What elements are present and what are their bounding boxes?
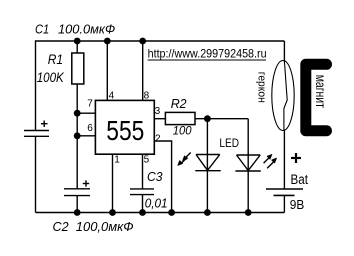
svg-text:6: 6 [87, 123, 93, 134]
node top rail R1 [74, 38, 81, 45]
capacitor C1 [24, 121, 49, 137]
node R2 output junction [204, 115, 211, 122]
LED D1 arrows [181, 153, 191, 164]
wire battery minus to ground rail [283, 195, 285, 212]
node ground C2 [74, 209, 81, 216]
wire LED D2 column [247, 119, 249, 213]
reed switch SF1 glass envelope [272, 61, 294, 131]
svg-text:C3: C3 [147, 169, 163, 184]
svg-text:9В: 9В [290, 197, 305, 212]
node ground C3 [139, 209, 146, 216]
battery GB1 [266, 153, 303, 195]
wire C2 to ground rail [76, 196, 78, 213]
capacitor C3 [130, 189, 154, 195]
wire pin 6 [77, 135, 95, 137]
magnet body [306, 64, 327, 130]
svg-text:C1: C1 [35, 22, 49, 37]
svg-text:Bat: Bat [291, 172, 309, 187]
svg-text:1: 1 [114, 154, 120, 165]
wire R2 output [195, 118, 248, 120]
svg-text:3: 3 [155, 106, 161, 117]
wire bottom ground rail [36, 212, 285, 214]
wire pin 5 to C3 [142, 154, 144, 189]
LED D2 arrow heads [267, 155, 276, 163]
svg-text:C2: C2 [53, 219, 70, 234]
LED D1 [195, 155, 220, 171]
wire pin 4 [106, 41, 108, 100]
svg-text:7: 7 [87, 99, 93, 110]
node ground LED D1 [204, 209, 211, 216]
LED D2 arrows [264, 158, 274, 169]
svg-text:555: 555 [106, 115, 144, 146]
wire R1 top [76, 41, 78, 53]
node pin7 junction [74, 110, 81, 117]
node top rail pin8 [139, 38, 146, 45]
resistor R1 [72, 53, 84, 84]
node ground pin1 [109, 209, 116, 216]
wire LED D1 column [206, 119, 208, 213]
wire pin 8 [142, 41, 144, 100]
svg-text:8: 8 [144, 90, 150, 101]
svg-text:геркон: геркон [256, 72, 268, 103]
wire reed switch top [283, 41, 285, 62]
svg-text:4: 4 [109, 90, 115, 101]
LED D2 [235, 155, 260, 171]
wire pin 7 [77, 112, 95, 114]
svg-text:5: 5 [144, 154, 150, 165]
resistor R2 [165, 112, 195, 124]
svg-text:LED: LED [219, 136, 239, 150]
reed switch contacts [284, 61, 287, 130]
node top rail pin4 [104, 38, 111, 45]
svg-text:http://www.299792458.ru: http://www.299792458.ru [148, 46, 267, 60]
svg-text:магнит: магнит [313, 75, 329, 109]
wire left rail upper (to C1) [35, 40, 37, 130]
wire C3 to ground rail [142, 195, 144, 213]
svg-text:R2: R2 [171, 96, 188, 111]
LED D1 arrow heads [178, 156, 187, 165]
url underline [148, 59, 266, 61]
svg-text:100K: 100K [37, 70, 65, 85]
wire pin 1 [112, 154, 114, 212]
node ground LED D2 [245, 209, 252, 216]
node ground pin2 [168, 209, 175, 216]
svg-text:100.0мкФ: 100.0мкФ [58, 22, 115, 37]
svg-text:100,0мкФ: 100,0мкФ [76, 219, 134, 234]
wire reed to battery [283, 130, 285, 189]
svg-text:0,01: 0,01 [145, 196, 168, 210]
op-amp U1 555 box [95, 100, 154, 154]
wire top supply rail [36, 40, 285, 42]
wire pin 2 [154, 141, 171, 213]
wire pin 3 [154, 118, 165, 120]
wire left rail lower (C1 to ground rail) [35, 136, 37, 212]
node pin6 junction [74, 132, 81, 139]
svg-text:R1: R1 [48, 52, 63, 67]
svg-text:2: 2 [155, 133, 161, 144]
capacitor C2 [64, 180, 90, 195]
wire R1 bottom to C2 [76, 84, 78, 189]
svg-text:100: 100 [173, 124, 192, 138]
